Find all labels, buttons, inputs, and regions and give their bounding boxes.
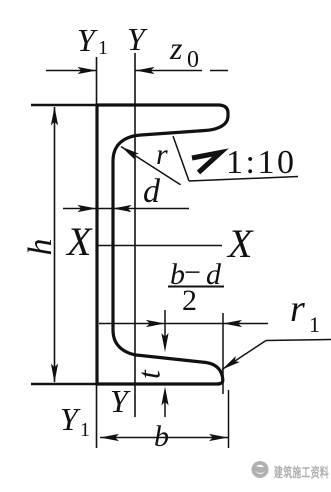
svg-text:0: 0 bbox=[187, 47, 199, 73]
label z0 bbox=[169, 30, 199, 73]
label 1:10 bbox=[226, 144, 296, 181]
slope symbol bbox=[192, 153, 221, 173]
dimension b bbox=[100, 390, 229, 448]
watermark text bbox=[274, 464, 329, 480]
label X right bbox=[226, 221, 254, 266]
svg-text:b: b bbox=[154, 420, 169, 453]
svg-text:2: 2 bbox=[182, 284, 197, 317]
label r bbox=[156, 138, 168, 171]
svg-text:Y: Y bbox=[60, 401, 81, 437]
dimension h bbox=[51, 107, 58, 383]
axis Y vertical bbox=[134, 53, 136, 417]
svg-text:h: h bbox=[22, 239, 59, 256]
svg-text:Y: Y bbox=[127, 21, 148, 57]
label Y bottom bbox=[110, 383, 131, 419]
channel section outline bbox=[97, 105, 228, 384]
dimension d bbox=[63, 205, 189, 212]
svg-text:t: t bbox=[130, 369, 166, 379]
svg-text:1:10: 1:10 bbox=[226, 144, 296, 181]
label t rotated bbox=[130, 369, 166, 379]
label h rotated bbox=[22, 239, 59, 256]
svg-text:X: X bbox=[65, 219, 93, 264]
svg-text:1: 1 bbox=[98, 37, 108, 59]
label b bbox=[154, 420, 169, 453]
svg-text:Y: Y bbox=[110, 383, 131, 419]
dimension t bbox=[161, 310, 168, 417]
slope leader 1:10 bbox=[173, 136, 298, 181]
svg-text:1: 1 bbox=[309, 312, 320, 337]
top edge extension line bbox=[31, 104, 97, 107]
svg-text:X: X bbox=[226, 221, 254, 266]
bottom edge extension line bbox=[31, 383, 97, 386]
leader for fillet r bbox=[121, 147, 181, 185]
label Y1 top bbox=[77, 22, 108, 59]
label (b-d)/2 fraction bbox=[168, 256, 224, 317]
label r1 bbox=[290, 288, 320, 337]
label X left bbox=[65, 219, 93, 264]
svg-text:d: d bbox=[143, 173, 161, 210]
svg-text:1: 1 bbox=[80, 419, 90, 441]
label Y top bbox=[127, 21, 148, 57]
label Y1 bottom bbox=[60, 401, 90, 441]
axis X horizontal bbox=[96, 245, 222, 247]
dimension (b-d)/2 bbox=[99, 313, 268, 394]
watermark logo circle bbox=[252, 461, 269, 478]
axis Y1 vertical bbox=[96, 57, 98, 448]
svg-text:建筑施工资料: 建筑施工资料 bbox=[274, 464, 329, 480]
leader for r1 bbox=[222, 340, 331, 370]
svg-text:z: z bbox=[169, 30, 183, 66]
svg-text:r: r bbox=[156, 138, 168, 171]
label d bbox=[143, 173, 161, 210]
svg-text:Y: Y bbox=[77, 22, 98, 58]
svg-text:r: r bbox=[290, 288, 305, 330]
dimension z0 bbox=[46, 67, 228, 74]
